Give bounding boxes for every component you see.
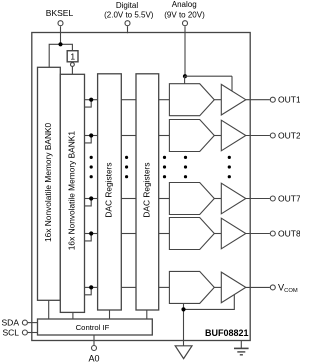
svg-text:OUT7: OUT7 [278, 194, 300, 204]
wire DAC9 to buffer U9 [214, 286, 221, 288]
svg-text:BUF08821: BUF08821 [205, 328, 249, 338]
wire bank merge step row1 [85, 100, 92, 107]
wire DAC registers link row8 [121, 233, 136, 235]
wire bank merge step row7 [85, 199, 92, 206]
ellipsis dots column buffers [228, 156, 231, 179]
analog junction dot [183, 74, 187, 78]
wire analog junction to buffer rail [185, 75, 232, 77]
op-amp buffer U7 [221, 183, 246, 214]
wire DAC register 2 to DAC7 [159, 198, 170, 200]
wire DAC register 2 bottom stub [146, 310, 148, 319]
wire DAC8 to buffer U8 [214, 233, 221, 235]
wire buffer U1 to OUT1 pin [246, 99, 270, 101]
svg-text:A0: A0 [88, 353, 99, 362]
wire buffer U7 to OUT7 pin [246, 198, 270, 200]
op-amp buffer U1 [221, 84, 246, 115]
svg-text:1: 1 [70, 51, 75, 61]
DAC D8 [169, 218, 214, 250]
wire SDA [28, 322, 38, 324]
main chip box [32, 33, 250, 341]
logic box 1 [67, 51, 78, 62]
wire analog rail into buffer U1 [231, 76, 233, 98]
svg-text:BKSEL: BKSEL [46, 8, 74, 18]
op-amp buffer U8 [221, 218, 246, 249]
wire A0 [93, 335, 95, 345]
wire BANK1 to DAC register row1 [85, 99, 98, 101]
svg-text:SDA: SDA [2, 318, 20, 328]
wire BANK1 to DAC register row2 [85, 135, 98, 137]
wire DAC registers link row1 [121, 99, 136, 101]
DAC D9 VCOM [169, 271, 214, 303]
junction dot row7 [89, 196, 93, 200]
wire DAC register 2 to DAC8 [159, 233, 170, 235]
wire DAC1 to buffer U1 [214, 99, 221, 101]
wire BANK1 to DAC register row7 [85, 198, 98, 200]
ellipsis dots column between DAC registers [125, 156, 128, 179]
wire DAC registers link row2 [121, 135, 136, 137]
wire BANK1 to DAC register row8 [85, 233, 98, 235]
op-amp buffer U9 [221, 272, 246, 303]
svg-text:Control IF: Control IF [76, 323, 110, 332]
wire BKSEL junction right branch to logic box 1 [61, 44, 73, 50]
wire buffer U2 to OUT2 pin [246, 135, 270, 137]
wire DAC2 to buffer U2 [214, 135, 221, 137]
pin circle OUT1 [270, 97, 275, 102]
pin circle BKSEL [58, 21, 63, 26]
svg-text:16x Nonvolatile Memory BANK1: 16x Nonvolatile Memory BANK1 [66, 131, 76, 251]
DAC D1 [169, 84, 214, 116]
pin circle Analog [183, 21, 188, 26]
inverter bubble under box 1 [71, 63, 75, 67]
wire bank merge step row2 [85, 136, 92, 143]
pin circle A0 [92, 346, 97, 351]
wire DAC7 to buffer U7 [214, 198, 221, 200]
wire analog stub into DAC1 top [184, 76, 186, 88]
wire DAC registers link row7 [121, 198, 136, 200]
DAC register block 2 [136, 74, 159, 310]
wire DAC register 2 to DAC9 [159, 286, 170, 288]
ellipsis dots column DACs [184, 156, 187, 179]
earth ground symbol [234, 341, 249, 355]
wire SCL [28, 332, 38, 334]
svg-text:Digital: Digital [116, 1, 138, 10]
wire bank merge step rowV [85, 287, 92, 294]
wire DAC registers link rowV [121, 286, 136, 288]
memory bank block BANK1 [60, 74, 84, 312]
wire BANK0 bottom stub [48, 300, 50, 319]
svg-text:16x Nonvolatile Memory BANK0: 16x Nonvolatile Memory BANK0 [43, 122, 53, 242]
svg-text:SCL: SCL [2, 327, 19, 337]
junction dot BKSEL [58, 42, 62, 46]
wire BKSEL pin to junction [60, 26, 62, 44]
control interface block [38, 319, 153, 335]
pin circle VCOM [270, 285, 275, 290]
pin circle SDA [22, 320, 27, 325]
junction dot row1 [89, 98, 93, 102]
svg-text:DAC Registers: DAC Registers [103, 162, 113, 217]
ellipsis dots column between banks [90, 156, 93, 179]
wire buffer U9 to VCOM pin [246, 286, 270, 288]
svg-text:(9V to 20V): (9V to 20V) [164, 10, 205, 19]
svg-text:OUT8: OUT8 [278, 229, 300, 239]
wire DAC register 1 bottom stub [109, 310, 111, 319]
op-amp buffer U2 [221, 120, 246, 151]
pin circle Digital [125, 21, 130, 26]
pin circle OUT7 [270, 196, 275, 201]
svg-text:(2.0V to 5.5V): (2.0V to 5.5V) [104, 10, 154, 19]
DAC register block 1 [98, 74, 122, 310]
pin circle SCL [22, 330, 27, 335]
wire VCOM DAC bottom to ground symbol [183, 300, 185, 346]
wire ground run to buffer U9 bottom [184, 292, 235, 309]
wire DAC register 2 to DAC2 [159, 135, 170, 137]
svg-text:OUT1: OUT1 [278, 95, 300, 105]
DAC D2 [169, 120, 214, 152]
wire buffer U8 to OUT8 pin [246, 233, 270, 235]
wire bubble to BANK1 top [71, 66, 73, 74]
svg-text:OUT2: OUT2 [278, 131, 300, 141]
wire BANK1 to DAC register rowV [85, 286, 98, 288]
wire BKSEL junction left branch to BANK0 top [49, 44, 60, 67]
wire Analog pin down to analog junction [184, 26, 186, 76]
junction dot rowV [89, 285, 93, 289]
pin circle OUT8 [270, 231, 275, 236]
wire bank merge step row8 [85, 234, 92, 241]
wire BANK1 bottom stub [72, 312, 74, 319]
svg-text:DAC Registers: DAC Registers [141, 162, 151, 217]
junction dot row2 [89, 133, 93, 137]
ellipsis dots column before DACs [163, 156, 166, 179]
wire DAC register 2 to DAC1 [159, 99, 170, 101]
DAC D7 [169, 183, 214, 215]
svg-text:Analog: Analog [172, 0, 197, 9]
memory bank block BANK0 [38, 67, 61, 300]
pin circle OUT2 [270, 133, 275, 138]
ground open triangle [175, 346, 192, 359]
junction dot row8 [89, 231, 93, 235]
wire Digital pin stub to box top [127, 26, 129, 33]
junction dot ground [181, 307, 185, 311]
